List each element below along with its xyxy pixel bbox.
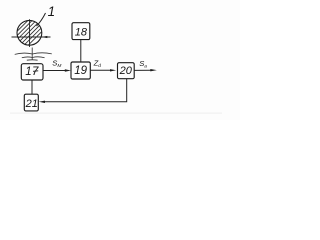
svg-text:Sa: Sa: [139, 59, 147, 69]
box 21: [24, 94, 38, 111]
wire 17 to 21: [31, 80, 33, 94]
arrowhead at roller right edge: [41, 36, 47, 38]
box 19: [71, 62, 90, 79]
svg-text:20: 20: [119, 65, 133, 77]
svg-text:1: 1: [48, 4, 56, 19]
svg-text:18: 18: [75, 27, 88, 39]
box 18: [72, 23, 90, 40]
wire 18 to 19: [80, 40, 82, 62]
svg-text:17: 17: [25, 66, 39, 78]
leader line to label 1: [37, 13, 46, 26]
roller circle 1 (hatched): [0, 16, 57, 48]
feedback wire 20 to 21: [44, 79, 127, 102]
faint scan artifact line: [10, 113, 222, 114]
box 17: [21, 64, 43, 80]
wire 17 to 19: [43, 70, 66, 72]
svg-text:SM: SM: [52, 59, 61, 69]
vertical center line of roller: [29, 19, 31, 47]
svg-text:Zd: Zd: [93, 58, 102, 68]
wire 19 to 20: [90, 69, 110, 71]
svg-text:21: 21: [25, 98, 38, 110]
scanning arcs below roller: [15, 53, 52, 60]
wire horizontal through roller with arrow: [12, 36, 51, 38]
box 20: [118, 63, 135, 79]
wire from roller to box 17: [31, 48, 33, 61]
svg-text:19: 19: [74, 65, 87, 77]
output wire S_a: [134, 69, 151, 71]
